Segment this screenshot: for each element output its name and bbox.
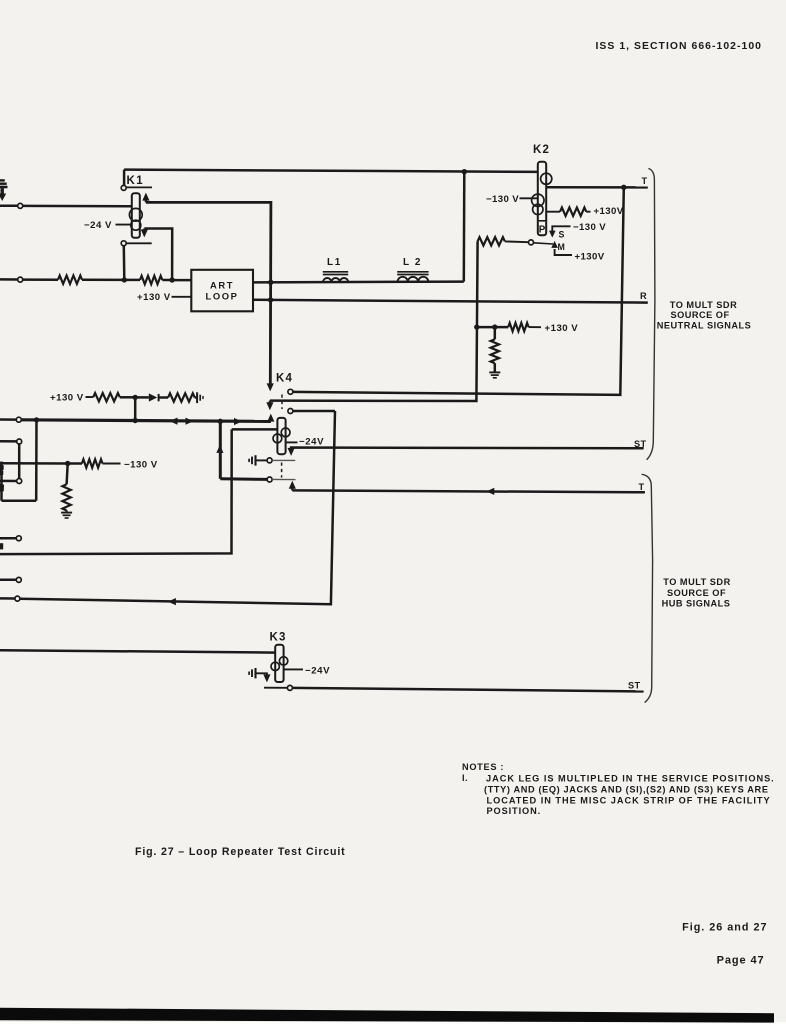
K4 capacitor contact arm xyxy=(272,459,295,461)
svg-text:−24V: −24V xyxy=(299,436,324,447)
svg-text:ST: ST xyxy=(634,439,647,449)
wire long TTY line into K3 xyxy=(0,650,275,652)
K2 coil winding loop right xyxy=(541,173,552,184)
hub T wire xyxy=(292,490,645,492)
jack contact upper xyxy=(17,439,22,444)
jack bar vertical xyxy=(18,444,21,479)
junction -130V row xyxy=(65,461,70,466)
junction bold row b xyxy=(133,418,138,423)
figure caption xyxy=(135,846,346,858)
inductor L2 xyxy=(397,272,428,282)
label T hub xyxy=(639,482,645,492)
dashed armature link upper xyxy=(281,395,283,410)
contact terminal under K1 label xyxy=(121,185,126,190)
relay K4 coil xyxy=(277,418,285,454)
arrow on lower tie wire xyxy=(168,598,176,605)
wire K4 second contact to right vertical xyxy=(293,410,335,413)
svg-text:R: R xyxy=(640,291,647,301)
cut-off jack mark b xyxy=(0,484,4,492)
wire label to R-c xyxy=(86,396,94,398)
svg-text:+130V: +130V xyxy=(575,251,605,262)
cut-off jack mark a xyxy=(0,465,4,476)
svg-text:L1: L1 xyxy=(327,257,342,268)
label -24V for K3 xyxy=(284,665,330,676)
svg-text:LOCATED IN THE MISC JACK STRIP: LOCATED IN THE MISC JACK STRIP OF THE FA… xyxy=(487,795,771,805)
svg-text:K1: K1 xyxy=(127,175,145,187)
resistor R-b xyxy=(140,276,162,284)
wire bold row xyxy=(21,420,271,422)
label R neutral xyxy=(640,291,647,301)
page number xyxy=(717,955,765,967)
K1 coil winding loop a xyxy=(129,208,142,221)
ground below R-f xyxy=(61,513,72,518)
label +130V right of R-i xyxy=(586,206,623,217)
junction on top bus xyxy=(462,169,467,174)
wire K1 lower arm over to resistor row xyxy=(144,229,172,280)
text to mult sdr neutral xyxy=(657,300,752,331)
figure index right xyxy=(682,922,767,934)
label ST neutral xyxy=(634,439,647,449)
wire stub row 580 xyxy=(0,579,16,582)
contact terminal second row xyxy=(18,277,23,282)
arrow on hub T wire xyxy=(486,488,494,495)
arrow toward K4 xyxy=(234,418,242,425)
K2 coil winding loop left b xyxy=(533,204,543,214)
K3 coil winding loop right xyxy=(279,657,287,665)
wire stub to jack lower xyxy=(0,480,17,483)
svg-text:ART: ART xyxy=(210,279,234,290)
bottom scan bar xyxy=(0,1008,774,1023)
wire junction down to R-f xyxy=(67,464,68,485)
inductor L2 label xyxy=(403,257,422,268)
ground below R-h xyxy=(489,372,500,377)
K4 contact terminal 1 xyxy=(288,389,293,394)
relay K4 label xyxy=(276,373,293,385)
diode CR xyxy=(149,393,159,401)
relay K2 coil xyxy=(538,162,546,236)
svg-text:Fig. 26 and 27: Fig. 26 and 27 xyxy=(682,922,767,934)
wire left stub bold row xyxy=(0,418,16,421)
svg-text:TO MULT SDR: TO MULT SDR xyxy=(663,577,730,587)
wire top bus K1 to K2 xyxy=(124,170,538,172)
note line 2 xyxy=(484,784,769,794)
up arrow start of hub T wire xyxy=(289,481,296,491)
resistor R-g xyxy=(508,323,528,331)
contact terminal row 538 xyxy=(16,536,21,541)
junction on K2 leg xyxy=(474,324,479,329)
svg-text:NOTES :: NOTES : xyxy=(462,762,504,772)
note line 1 xyxy=(486,773,775,783)
wire ART LOOP upper output through L1 L2 xyxy=(253,280,464,283)
box ART LOOP xyxy=(191,270,253,312)
capacitor to ground at K4 xyxy=(249,455,255,465)
contact terminal bold row xyxy=(16,417,21,422)
wire K2 leg down to K4 second contact row xyxy=(270,241,478,401)
K3 contact terminal xyxy=(287,685,292,690)
K1 armature up arrow xyxy=(142,193,149,203)
arrow from ART vertical onto K4 first contact xyxy=(267,383,274,391)
svg-text:(TTY) AND (EQ) JACKS AND (SI): (TTY) AND (EQ) JACKS AND (SI),(S2) AND (… xyxy=(484,784,769,794)
svg-text:+130 V: +130 V xyxy=(137,292,171,303)
jack frame bottom xyxy=(2,499,37,502)
junction bold row a xyxy=(34,417,39,422)
resistor R-j on K2 contact leg xyxy=(478,237,505,245)
svg-text:POSITION.: POSITION. xyxy=(487,806,542,816)
svg-text:SOURCE OF: SOURCE OF xyxy=(670,310,729,320)
svg-text:+130 V: +130 V xyxy=(545,323,579,334)
wire junction to R-e xyxy=(68,462,82,465)
svg-text:L 2: L 2 xyxy=(403,257,422,268)
svg-text:M: M xyxy=(558,242,565,252)
svg-text:+130V: +130V xyxy=(594,206,624,217)
wire diode to R-d xyxy=(159,396,169,399)
K3 coil winding loop left xyxy=(271,662,279,670)
arrow pair diverging xyxy=(170,418,194,425)
cut-off mark c xyxy=(0,543,3,549)
K4 capacitor contact terminal xyxy=(267,458,272,463)
K2 coil winding loop left a xyxy=(532,194,544,206)
wire junction to resistor R-b xyxy=(124,279,140,282)
wire right vertical down to hub tie and left xyxy=(20,411,335,604)
junction top row xyxy=(133,395,138,400)
resistor R-c xyxy=(93,393,120,401)
K2 P section label xyxy=(539,225,546,236)
label -24V for K4 xyxy=(286,436,324,447)
inductor L1 label xyxy=(327,257,342,268)
svg-text:LOOP: LOOP xyxy=(206,291,239,302)
contact terminal lower xyxy=(121,241,126,246)
svg-text:Page 47: Page 47 xyxy=(717,955,765,967)
wire T junction down and left to K4 contact xyxy=(293,187,624,395)
svg-text:K4: K4 xyxy=(276,373,293,385)
K1 break-contact down arrow xyxy=(141,229,148,238)
arrow down from ST corner xyxy=(288,448,295,456)
wire junction to diode xyxy=(135,396,149,399)
K2 P section divider xyxy=(539,220,546,222)
label -24V for K1 xyxy=(84,220,132,231)
label -130 V to K2 coil xyxy=(486,194,538,205)
contact terminal xyxy=(18,203,23,208)
svg-text:+130 V: +130 V xyxy=(50,393,84,404)
wire from bold-row drop to third contact xyxy=(220,477,267,481)
wire stub row 538 xyxy=(0,537,16,540)
wire K2 right to resistor R-i xyxy=(546,211,560,213)
K4 coil winding loop left xyxy=(273,434,282,443)
wire stub to jack upper xyxy=(0,440,17,443)
junction upper output xyxy=(268,280,273,285)
svg-text:SOURCE OF: SOURCE OF xyxy=(667,588,726,598)
label T neutral xyxy=(642,176,648,186)
junction lower output xyxy=(268,297,273,302)
wire K4 coil feed from lower left xyxy=(0,429,232,554)
label M with +130V xyxy=(551,241,604,262)
relay K1 coil xyxy=(132,193,140,238)
svg-text:−24 V: −24 V xyxy=(84,220,112,231)
wire K1 contact arm to vertical drop xyxy=(146,202,271,387)
header section number xyxy=(596,41,763,52)
wire R-b to junction xyxy=(162,279,172,282)
wire cap to contact xyxy=(256,459,267,461)
label +130 V top row xyxy=(50,393,84,404)
wire R-a to junction xyxy=(82,279,124,282)
up arrow on vertical drop xyxy=(216,445,223,453)
svg-text:Fig. 27 – Loop Repeater Test C: Fig. 27 – Loop Repeater Test Circuit xyxy=(135,846,346,858)
svg-text:T: T xyxy=(642,176,648,186)
label +130 V bleeder xyxy=(529,323,579,334)
K2 contact arm xyxy=(534,243,554,244)
svg-text:P: P xyxy=(539,225,546,236)
label +130 V into ART LOOP xyxy=(137,292,191,303)
contact terminal lower tie xyxy=(15,596,20,601)
dashed armature link lower xyxy=(281,463,283,478)
K2 movable contact terminal xyxy=(529,240,534,245)
relay K2 label xyxy=(533,144,550,156)
wire R-h to ground xyxy=(494,363,497,371)
wire to resistor R-a xyxy=(23,278,58,281)
svg-text:ISS 1, SECTION 666-102-100: ISS 1, SECTION 666-102-100 xyxy=(596,41,763,52)
resistor R-i xyxy=(560,208,586,216)
wire operate row into K4 xyxy=(232,428,278,431)
label ST hub xyxy=(628,680,641,690)
jack frame right vertical xyxy=(35,420,38,501)
relay K1 label xyxy=(125,175,152,187)
resistor R-a xyxy=(58,276,82,284)
up arrow onto K4 armature xyxy=(267,414,274,422)
wire junction to ART LOOP box xyxy=(172,279,191,282)
svg-text:T: T xyxy=(639,482,645,492)
wire ART LOOP lower output R line xyxy=(253,300,648,303)
capacitor to ground at K3 xyxy=(249,668,255,678)
wire vertical up to top bus xyxy=(463,172,466,282)
svg-text:HUB SIGNALS: HUB SIGNALS xyxy=(662,599,731,609)
junction xyxy=(122,277,127,282)
junction bold row c xyxy=(218,419,223,424)
wire left stub lower tie xyxy=(0,597,15,600)
ST wire of hub group xyxy=(292,688,643,692)
jack contact lower xyxy=(17,479,22,484)
wire R-j to movable contact xyxy=(505,240,529,243)
svg-text:S: S xyxy=(559,230,565,240)
brace neutral signals xyxy=(647,168,655,459)
wire R-c to junction xyxy=(120,396,135,399)
junction at K1 arm drop xyxy=(169,277,174,282)
stub wire from lower contact xyxy=(126,242,152,244)
wire K2 to T terminal xyxy=(546,186,648,189)
svg-text:I.: I. xyxy=(462,773,468,783)
wire R-d to capacitor xyxy=(195,396,197,399)
svg-text:NEUTRAL SIGNALS: NEUTRAL SIGNALS xyxy=(657,321,752,331)
svg-text:−130 V: −130 V xyxy=(124,459,158,470)
svg-text:K3: K3 xyxy=(270,631,287,643)
svg-text:−24V: −24V xyxy=(305,665,330,676)
svg-text:−130 V: −130 V xyxy=(486,194,519,205)
svg-text:JACK LEG IS MULTIPLED IN THE S: JACK LEG IS MULTIPLED IN THE SERVICE POS… xyxy=(486,773,775,783)
relay K3 coil xyxy=(275,645,283,682)
brace hub signals xyxy=(642,474,653,702)
K4 third contact terminal xyxy=(267,477,272,482)
svg-text:ST: ST xyxy=(628,680,641,690)
wire left stub to K1 upper contact xyxy=(0,205,18,208)
resistor R-f vertical xyxy=(62,484,70,510)
wire left stub second row xyxy=(0,278,18,281)
vertical drop from bold row xyxy=(219,421,222,479)
text to mult sdr hub xyxy=(662,577,731,608)
wire left to -130V junction xyxy=(0,462,68,465)
notes heading xyxy=(462,762,504,772)
K4 coil winding loop right xyxy=(281,428,290,437)
jack frame left vertical xyxy=(0,462,3,501)
wire R-f to ground xyxy=(65,511,68,512)
resistor R-e xyxy=(82,459,103,467)
relay K3 label xyxy=(270,631,287,643)
K4 third contact arm xyxy=(272,478,295,480)
K1 coil winding loop b xyxy=(131,220,141,230)
junction on T wire xyxy=(621,185,626,190)
note 1 index xyxy=(462,773,468,783)
wire cap over and down with arrow xyxy=(256,673,271,682)
wire bleeder down xyxy=(494,327,497,339)
svg-text:−130 V: −130 V xyxy=(573,222,606,233)
label S with -130 V xyxy=(549,222,606,239)
wire contact to K1 coil xyxy=(23,205,132,208)
svg-text:K2: K2 xyxy=(533,144,550,156)
ST wire of neutral group xyxy=(291,448,643,451)
K4 contact terminal 2 xyxy=(288,409,293,414)
wire lower contact down to resistor row xyxy=(123,246,126,280)
note line 4 xyxy=(487,806,542,816)
capacitor end mark xyxy=(197,392,203,403)
node K1 top corner xyxy=(123,170,126,186)
wire K3 contact stub xyxy=(264,687,287,689)
label -130 V xyxy=(103,459,158,470)
note line 3 xyxy=(487,795,771,805)
cut-off battery/arrow symbol at left edge xyxy=(0,180,8,201)
resistor R-d xyxy=(168,393,195,401)
inductor L1 xyxy=(323,272,348,282)
wire junction down to bold row xyxy=(134,397,137,420)
junction at bleeder top xyxy=(492,324,497,329)
resistor R-h vertical xyxy=(491,339,499,363)
svg-text:TO MULT SDR: TO MULT SDR xyxy=(670,300,737,310)
contact terminal row 580 xyxy=(16,577,21,582)
wire from K2 leg to +130V resistor xyxy=(477,326,508,329)
arrow onto K4 second contact xyxy=(266,401,273,411)
